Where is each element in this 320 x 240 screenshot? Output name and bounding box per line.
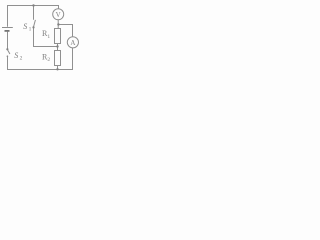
wire R1 bottom stub [57, 44, 59, 51]
wire right below ammeter [72, 48, 74, 70]
resistor R1 box [55, 29, 61, 44]
ammeter circle [67, 37, 78, 48]
svg-text:V: V [56, 11, 61, 19]
battery cell long plate [2, 27, 13, 29]
wire R2 bottom stub [57, 66, 59, 70]
switch S2 lower terminal dot [7, 55, 9, 57]
wire S1 branch upper stub [33, 5, 35, 20]
svg-text:A: A [70, 39, 75, 47]
wire middle horizontal (S1 branch to R1/R2 node) [33, 46, 58, 48]
wire bottom [7, 69, 73, 71]
svg-text:2: 2 [47, 57, 50, 63]
wire voltmeter bottom to R1 top [57, 20, 59, 29]
wire top corner down to voltmeter [58, 5, 60, 9]
resistor R2 box [55, 51, 61, 66]
svg-text:S: S [14, 51, 18, 60]
junction dot between R1 and R2 [56, 45, 58, 47]
junction dot R2 at bottom wire [56, 68, 58, 70]
battery cell short thick plate [5, 30, 10, 32]
wire voltmeter node to right corner [59, 24, 74, 26]
wire battery to S2 [7, 32, 9, 49]
junction dot voltmeter node [57, 23, 59, 25]
wire left upper (to battery) [7, 5, 9, 27]
wire right above ammeter [72, 25, 74, 37]
svg-text:2: 2 [20, 56, 23, 62]
voltmeter circle [53, 9, 64, 20]
switch S2 terminal dot [6, 48, 8, 50]
background [0, 0, 85, 73]
switch S1 blade [33, 20, 35, 28]
switch S1 terminal dot [32, 26, 34, 28]
wire top [7, 5, 59, 7]
svg-text:S: S [23, 22, 27, 31]
svg-text:1: 1 [29, 27, 32, 33]
wire below S2 [7, 56, 9, 70]
junction dot S1 branch at top wire [32, 4, 34, 6]
svg-text:1: 1 [47, 34, 50, 40]
wire S1 branch lower [33, 27, 35, 47]
switch S2 blade [7, 49, 10, 54]
